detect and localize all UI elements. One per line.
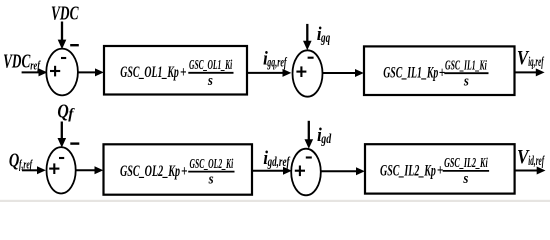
wire GSC_OL2 to summing junction S4 xyxy=(252,167,292,175)
svg-text:GSC_IL1_Kp: GSC_IL1_Kp xyxy=(383,65,438,82)
svg-text:GSC_IL2_Ki: GSC_IL2_Ki xyxy=(444,155,488,170)
wire S2 to GSC_IL1 block xyxy=(323,69,364,77)
svg-text:GSC_OL2_Ki: GSC_OL2_Ki xyxy=(190,156,234,171)
summing junction S1 xyxy=(46,49,78,96)
svg-text:GSC_IL2_Kp: GSC_IL2_Kp xyxy=(380,162,436,179)
label VDCref xyxy=(3,51,41,73)
minus sign in S3 xyxy=(59,157,64,159)
PI controller block GSC_IL1 xyxy=(364,46,515,95)
wire VDC to summing junction S1 xyxy=(58,22,67,50)
svg-text:gd,ref: gd,ref xyxy=(267,154,291,169)
plus sign in S3 xyxy=(49,163,59,174)
label igq xyxy=(317,24,331,45)
label igq,ref xyxy=(263,48,287,69)
minus sign in S1 xyxy=(61,57,66,59)
svg-text:gq,ref: gq,ref xyxy=(267,54,288,69)
wire Qf to summing junction S3 xyxy=(58,122,67,148)
bottom scan band xyxy=(0,200,550,202)
svg-text:VDC: VDC xyxy=(3,51,31,73)
minus sign at S1 top input xyxy=(70,44,79,46)
wire GSC_IL2 output Vid,ref xyxy=(515,167,546,175)
svg-text:Q: Q xyxy=(57,100,68,122)
minus sign at S3 top input xyxy=(70,142,79,144)
minus sign in S4 xyxy=(306,156,312,158)
plus sign in S1 xyxy=(50,66,60,77)
summing junction S3 xyxy=(47,147,76,193)
label igd xyxy=(317,125,331,146)
wire S1 to GSC_OL1 block xyxy=(78,68,104,76)
label Vid,ref xyxy=(517,146,545,168)
wire S4 to GSC_IL2 block xyxy=(321,167,365,175)
PI controller block GSC_OL2 xyxy=(104,144,253,194)
svg-text:s: s xyxy=(463,73,469,89)
wire GSC_OL1 to summing junction S2 xyxy=(247,69,291,77)
minus sign in S2 xyxy=(308,57,314,59)
wire input to S3 xyxy=(22,166,46,174)
plus sign in S2 xyxy=(296,66,306,77)
svg-text:GSC_OL1_Ki: GSC_OL1_Ki xyxy=(189,57,232,72)
svg-text:iq,ref: iq,ref xyxy=(528,54,544,69)
summing junction S2 xyxy=(293,50,323,96)
wire input to S1 xyxy=(22,68,48,76)
PI controller block GSC_IL2 xyxy=(365,144,515,193)
wire igd to S4 xyxy=(305,121,314,149)
svg-text:gd: gd xyxy=(321,131,332,146)
svg-text:Q: Q xyxy=(9,150,19,172)
label igd,ref xyxy=(263,148,290,169)
svg-text:s: s xyxy=(463,171,469,187)
wire igq to S2 xyxy=(303,24,312,50)
svg-text:s: s xyxy=(207,73,213,89)
wire GSC_IL1 output Viq,ref xyxy=(515,68,545,76)
PI controller block GSC_OL1 xyxy=(104,46,247,95)
svg-text:GSC_OL1_Kp: GSC_OL1_Kp xyxy=(120,64,179,81)
label Qf,ref xyxy=(9,150,33,172)
svg-text:+: + xyxy=(180,64,187,81)
svg-text:id,ref: id,ref xyxy=(528,153,545,168)
plus sign in S4 xyxy=(295,166,305,177)
svg-text:GSC_IL1_Ki: GSC_IL1_Ki xyxy=(445,58,487,73)
svg-text:+: + xyxy=(437,162,444,179)
summing junction S4 xyxy=(291,149,321,196)
svg-text:gq: gq xyxy=(320,30,330,45)
svg-text:s: s xyxy=(208,172,214,188)
label Qf xyxy=(57,100,75,122)
svg-text:+: + xyxy=(181,163,188,180)
svg-text:VDC: VDC xyxy=(51,3,79,25)
svg-text:GSC_OL2_Kp: GSC_OL2_Kp xyxy=(120,163,180,180)
label Viq,ref xyxy=(517,47,544,69)
wire S3 to GSC_OL2 block xyxy=(76,166,104,174)
